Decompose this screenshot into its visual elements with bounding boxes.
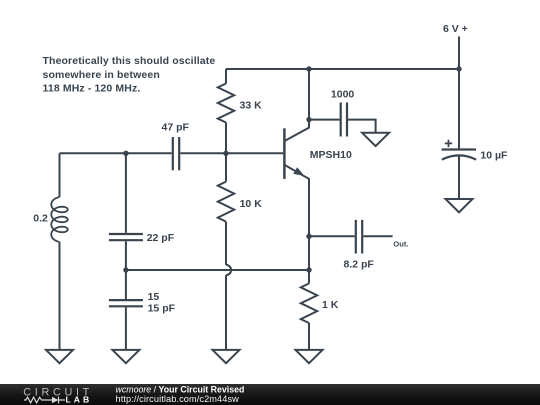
node top rail / supply junction [456, 66, 461, 71]
svg-text:33 K: 33 K [240, 100, 263, 112]
node base net / divider junction [223, 151, 228, 156]
capacitor C1 47 pF [173, 137, 179, 170]
svg-text:LAB: LAB [66, 395, 93, 405]
wire 15pF branch lower [125, 307, 127, 350]
ground left [46, 350, 73, 363]
capacitor C2 22 pF [109, 234, 143, 240]
wire output coupling [309, 235, 393, 237]
ground below 15pF [112, 350, 139, 363]
svg-text:22 pF: 22 pF [147, 232, 175, 244]
node collector / bypass junction [306, 117, 311, 122]
svg-text:Theoretically this should osci: Theoretically this should oscillate [43, 55, 216, 67]
wire left branch upper [59, 153, 61, 197]
ground below 10K [213, 350, 240, 363]
transistor Q1 collector lead [285, 69, 309, 141]
inductor L1 0.2 [51, 197, 68, 242]
wire 10uF to ground [458, 156, 460, 199]
node tank midpoint junction [123, 267, 128, 272]
wire 22pF to junction [125, 241, 127, 299]
svg-text:6 V +: 6 V + [443, 23, 468, 35]
svg-text:Out.: Out. [393, 239, 408, 248]
capacitor C5 8.2 pF [356, 220, 362, 254]
capacitor C3 15 pF [109, 300, 143, 306]
transistor Q1 emitter lead [285, 165, 309, 284]
wire hop over feedback rail [226, 265, 231, 350]
plus sign of C6 [445, 140, 452, 147]
wire mid rail (base net) [60, 152, 284, 154]
transistor Q1 MPSH10 base bar [283, 128, 286, 179]
svg-text:MPSH10: MPSH10 [310, 149, 352, 161]
resistor R1 33 K [218, 69, 234, 153]
svg-text:1 K: 1 K [322, 299, 339, 311]
svg-text:118 MHz - 120 MHz.: 118 MHz - 120 MHz. [43, 83, 141, 95]
resistor R2 10 K [218, 153, 234, 265]
ground bypass [362, 133, 389, 146]
svg-text:0.2: 0.2 [33, 213, 48, 225]
footer bar [0, 384, 540, 405]
node emitter / 1K junction [306, 267, 311, 272]
node base net / tank junction [123, 151, 128, 156]
wire left branch lower [59, 242, 61, 350]
wire feedback rail [126, 269, 309, 271]
svg-text:15: 15 [148, 291, 160, 303]
transistor Q1 emitter arrow [293, 167, 304, 175]
svg-text:8.2 pF: 8.2 pF [344, 259, 375, 271]
capacitor C6 10 uF polarized [442, 150, 477, 160]
svg-text:10 K: 10 K [240, 198, 263, 210]
resistor R3 1 K [301, 284, 317, 350]
ground below 10uF [446, 199, 473, 212]
svg-text:10 µF: 10 µF [480, 149, 508, 161]
svg-text:somewhere in between: somewhere in between [43, 69, 160, 81]
svg-text:47 pF: 47 pF [162, 121, 190, 133]
node top rail / collector junction [306, 66, 311, 71]
capacitor C4 1000 [341, 103, 347, 137]
wire 6V supply stem [458, 37, 460, 149]
node emitter / output junction [306, 234, 311, 239]
logo resistor-diode glyph [24, 397, 65, 404]
wire 22pF branch upper [125, 153, 127, 233]
svg-text:wcmoore / Your Circuit Revised: wcmoore / Your Circuit Revised [116, 384, 245, 394]
svg-text:15 pF: 15 pF [148, 303, 176, 315]
svg-text:http://circuitlab.com/c2m44sw: http://circuitlab.com/c2m44sw [116, 394, 240, 404]
wire top power rail [226, 68, 459, 70]
ground below 1K [296, 350, 323, 363]
wire bypass branch [309, 120, 376, 133]
svg-text:1000: 1000 [331, 89, 355, 101]
